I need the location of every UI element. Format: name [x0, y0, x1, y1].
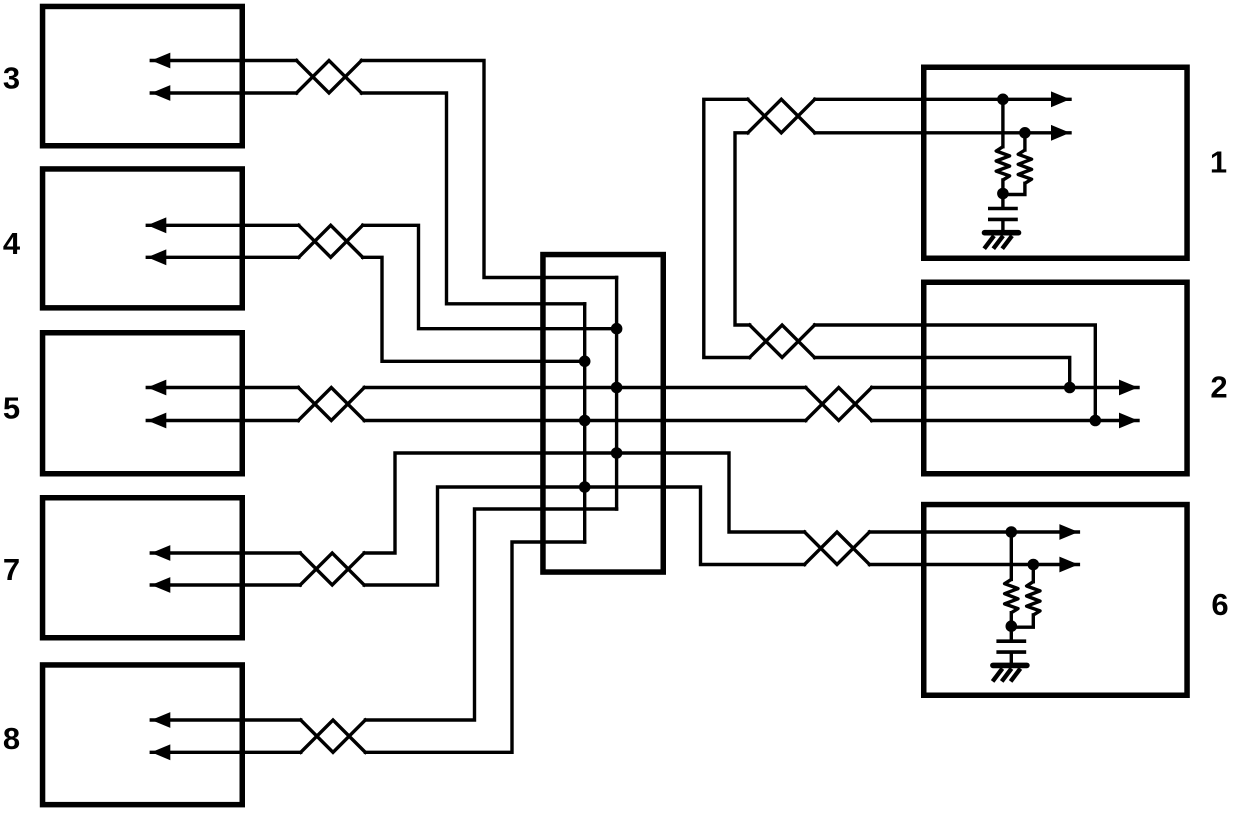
capacitor T6 plates [996, 639, 1026, 643]
resistor T6-Ra bottom lead [1010, 613, 1013, 627]
ground T1 hatches [984, 236, 1012, 249]
twisted pair symbol at box 7 [300, 553, 364, 585]
wire twist to box 8 upper [151, 718, 300, 721]
junction dot T6 wire 1 [1006, 526, 1018, 538]
resistor T6-Rb top lead [1032, 565, 1035, 582]
wire lower twist into box 2 (bends to wire D) [815, 325, 1096, 421]
capacitor T6 bottom lead [1010, 654, 1013, 662]
wire box3 upper: twist to hub right column [362, 61, 617, 278]
arrow into box 3 lower [151, 85, 170, 101]
wire lower twist into box 2 (bends to wire C) [815, 358, 1070, 388]
device box 1 [924, 67, 1187, 258]
wire box3 lower: twist to hub left column [362, 93, 585, 304]
resistor T6-Rb bottom lead [1011, 615, 1033, 627]
arrow into box 5 upper [147, 380, 166, 396]
arrow into box 8 upper [151, 712, 170, 728]
svg-text:1: 1 [1210, 144, 1227, 179]
junction dot T1 wire 1 [997, 94, 1009, 106]
capacitor T6 top lead [1010, 626, 1013, 639]
wire box7 upper to twist [151, 551, 300, 554]
ground T6 bar [993, 663, 1027, 669]
arrow inside box 6 upper [1059, 524, 1078, 540]
wire box1 lower loop down to lower twist [735, 133, 750, 325]
twisted pair symbol at box 2 (lower pair) [806, 388, 872, 421]
wire box7 upper across hub to jog [364, 453, 804, 553]
junction dot box7 lower at hub [579, 481, 591, 493]
arrow into box 5 lower [147, 413, 166, 429]
wire box5 upper to twist [147, 386, 298, 389]
arrow into box 4 upper [147, 217, 166, 233]
junction dot box5 lower at hub [579, 415, 591, 427]
arrow into box 7 lower [151, 577, 170, 593]
wire box4 upper: twist to hub right column [363, 225, 617, 328]
hub box [543, 255, 663, 573]
resistor T1-Rb bottom lead [1003, 183, 1025, 194]
wire twist into box 6 upper [870, 530, 1079, 533]
device box 7 [43, 498, 243, 638]
wire box3 lower to twist [151, 91, 296, 94]
junction dot box4 lower at hub [579, 356, 591, 368]
wire hub right column to box8 upper [365, 509, 616, 720]
twisted pair symbol at box 6 [805, 532, 870, 565]
device box 3 [43, 6, 243, 145]
arrow inside box 6 lower [1059, 557, 1078, 573]
twisted pair symbol between box1 and box2 [750, 325, 815, 358]
junction dot box2 wire D [1090, 415, 1102, 427]
resistor T1-Rb [1018, 150, 1031, 183]
wire twist to box 8 lower [151, 751, 300, 754]
arrow into box 7 upper [151, 545, 170, 561]
capacitor T1 plates [988, 207, 1018, 211]
arrow inside box 1 upper [1051, 91, 1070, 107]
svg-text:5: 5 [3, 391, 20, 426]
wire twist to box2 lower arrow [872, 419, 1138, 422]
svg-text:3: 3 [3, 61, 20, 96]
wire box5 lower across hub [364, 419, 805, 422]
wire box7 lower across hub to jog [364, 487, 804, 585]
arrow inside box 2 upper [1119, 380, 1138, 396]
twisted pair symbol at box 5 [298, 388, 364, 421]
wire twist into box 1 upper [815, 98, 1070, 101]
twisted pair symbol at box 1 [748, 99, 815, 133]
arrow into box 8 lower [151, 744, 170, 760]
wire hub left column to box8 lower [365, 542, 584, 752]
junction dot box7 upper at hub [611, 447, 623, 459]
device box 8 [43, 665, 243, 805]
arrow inside box 2 lower [1119, 413, 1138, 429]
resistor T6-Ra [1005, 579, 1018, 612]
junction dot T1 wire 2 [1019, 127, 1031, 139]
junction dot T6 wire 2 [1028, 559, 1040, 571]
junction dot box5 upper at hub [611, 382, 623, 394]
device box 5 [43, 333, 243, 474]
resistor T1-Rb top lead [1023, 133, 1026, 150]
device box 6 [924, 505, 1187, 696]
wire box5 lower to twist [147, 419, 298, 422]
junction dot box2 wire C [1064, 382, 1076, 394]
resistor T1-Ra bottom lead [1001, 180, 1004, 194]
device box 4 [43, 169, 243, 308]
ground T1 bar [985, 230, 1019, 236]
junction dot T6 common [1006, 620, 1018, 632]
ground T6 hatches [993, 669, 1021, 682]
wire box3 upper to twist [151, 59, 296, 62]
twisted pair symbol at box 8 [301, 720, 366, 752]
twisted pair symbol at box 3 [297, 61, 362, 94]
capacitor T1 bottom lead [1001, 221, 1004, 229]
twisted pair symbol at box 4 [299, 225, 363, 257]
resistor T6-Rb [1027, 582, 1040, 615]
hub column wire right (x=616.6) [615, 278, 618, 510]
resistor T6-Ra top lead [1010, 532, 1013, 579]
wire box4 lower to twist [147, 256, 298, 259]
wire box7 lower to twist [151, 583, 300, 586]
wire twist into box 6 lower [870, 563, 1079, 566]
wire box4 lower: twist to hub left column [363, 257, 585, 361]
wire box5 upper across hub [364, 386, 805, 389]
hub column wire left (x=584.7) [583, 304, 586, 542]
wire twist into box 1 lower [815, 131, 1070, 134]
svg-text:6: 6 [1211, 587, 1228, 622]
svg-text:8: 8 [3, 721, 20, 756]
arrow into box 4 lower [147, 249, 166, 265]
wire box4 upper to twist [147, 224, 298, 227]
capacitor T1 top lead [1001, 194, 1004, 207]
wire box1 upper loop down to lower twist [704, 99, 750, 357]
arrow inside box 1 lower [1051, 125, 1070, 141]
junction dot box4 upper at hub [611, 323, 623, 335]
junction dot T1 common [997, 188, 1009, 200]
svg-text:2: 2 [1210, 369, 1227, 404]
resistor T1-Ra top lead [1001, 99, 1004, 146]
arrow into box 3 upper [151, 53, 170, 69]
wire twist to box2 upper arrow [872, 386, 1138, 389]
svg-text:4: 4 [3, 226, 21, 261]
device box 2 [924, 282, 1187, 474]
svg-text:7: 7 [3, 552, 20, 587]
resistor T1-Ra [996, 147, 1009, 180]
